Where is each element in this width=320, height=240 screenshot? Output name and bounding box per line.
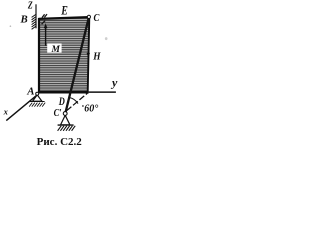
ground hatching at C' — [58, 126, 76, 131]
faint scan speck left of wall — [10, 25, 12, 27]
plate (striped fill) — [39, 17, 89, 92]
svg-text:C′: C′ — [54, 108, 62, 119]
angle arc 60 degrees — [69, 98, 78, 104]
support triangle at A — [33, 95, 42, 101]
hinge circle at A — [36, 92, 39, 95]
svg-text:y: y — [110, 76, 118, 90]
label box M — [47, 43, 61, 52]
wall hatching at B — [32, 14, 37, 29]
svg-text:A: A — [26, 85, 34, 97]
small dash near 60 label — [82, 105, 84, 107]
svg-text:C: C — [94, 12, 100, 24]
corner hatch marks at top-left of plate — [42, 14, 47, 24]
dashed reference line for 60 degrees — [67, 92, 89, 110]
x axis — [6, 95, 37, 121]
plate top edge — [39, 17, 89, 19]
hinge circle at C' — [63, 112, 67, 116]
svg-text:Z: Z — [27, 0, 33, 12]
svg-text:H: H — [92, 51, 101, 63]
y axis — [89, 91, 116, 93]
force arrow M (vertical, pointing up) — [45, 28, 47, 46]
plate bottom edge — [38, 91, 88, 94]
svg-text:x: x — [3, 107, 9, 117]
svg-text:M: M — [51, 45, 61, 55]
svg-text:E: E — [60, 5, 67, 18]
plate right edge — [88, 17, 90, 92]
svg-text:D: D — [58, 96, 65, 109]
svg-text:60°: 60° — [84, 104, 98, 115]
plate left edge — [38, 18, 40, 92]
z axis — [35, 4, 37, 28]
support triangle at C' — [61, 115, 70, 125]
ground hatching at A — [29, 103, 45, 107]
svg-text:Рис. С2.2: Рис. С2.2 — [37, 136, 83, 148]
hinge circle at C — [87, 15, 90, 18]
faint scan speck right of plate — [105, 37, 108, 40]
arrowhead at H on right edge — [87, 53, 90, 58]
svg-text:B: B — [20, 14, 28, 26]
rod CC' — [65, 17, 89, 113]
